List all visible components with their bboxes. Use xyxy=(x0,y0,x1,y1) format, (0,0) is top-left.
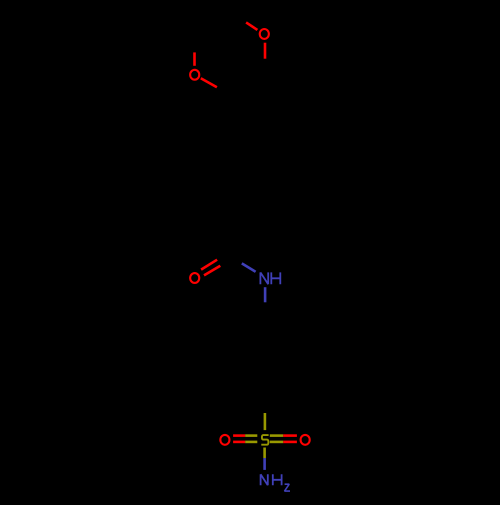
bond S=O right, upper line olive half xyxy=(270,434,284,437)
atom S (sulfonamide sulfur) xyxy=(261,435,268,445)
bond C-N amide (N half, blue) xyxy=(242,263,256,271)
bond O1-CH3 (methoxy methyl half-bond, red) xyxy=(193,52,196,65)
bond S=O right, upper line red half xyxy=(283,434,297,437)
bond S=O left, lower line olive half xyxy=(245,441,257,444)
bond O1-ring (half-bond, red) xyxy=(201,78,217,87)
bond S=O right, lower line red half xyxy=(283,441,297,444)
atom O2 (4-methoxy oxygen) xyxy=(260,29,269,39)
atom N1 H (amide H of NH) xyxy=(271,272,280,284)
bond N-ring (half-bond, blue) xyxy=(264,287,267,302)
bond S-N2 (N half, blue) xyxy=(263,458,266,470)
atom N2 (sulfonamide N of NH2) xyxy=(261,474,268,485)
bond S=O left, lower line red half xyxy=(233,441,245,444)
atom O5 (sulfonyl oxygen right) xyxy=(301,435,310,445)
bond O2-ring (half-bond, red) xyxy=(264,43,267,59)
bond S-N2 (S half, olive) xyxy=(263,448,266,459)
bond C=O carbonyl double bond line 2 (red half) xyxy=(204,266,220,276)
bond S=O right, lower line olive half xyxy=(270,441,284,444)
atom O4 (sulfonyl oxygen left) xyxy=(220,435,229,445)
atom O1 (3-methoxy oxygen) xyxy=(190,70,199,80)
bond S=O left, upper line olive half xyxy=(245,434,257,437)
atom N2 H (H of NH2) xyxy=(273,474,282,485)
atom O3 (carbonyl oxygen) xyxy=(190,273,199,283)
bond S=O left, upper line red half xyxy=(233,434,245,437)
bond C=O carbonyl double bond line 1 (red half) xyxy=(201,260,217,270)
atom N2 subscript 2 (of NH2) xyxy=(285,484,291,491)
bond ring-S (S half, olive) xyxy=(264,413,267,430)
bond O2-CH3 (methoxy methyl half-bond, red) xyxy=(246,22,257,30)
atom N1 (amide N of NH) xyxy=(260,272,268,284)
